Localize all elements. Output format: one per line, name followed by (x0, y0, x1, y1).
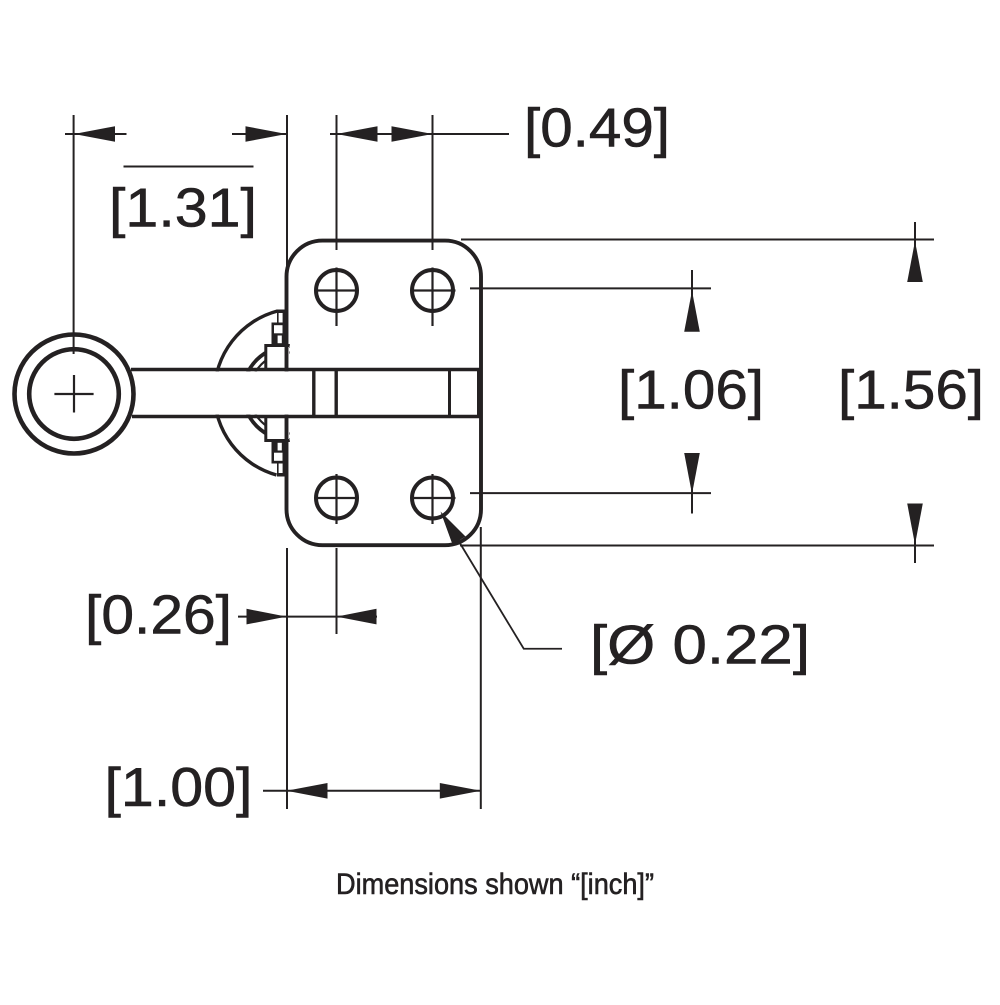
bar joint line 2 (335, 371, 338, 415)
clamp bar bottom edge (132, 415, 479, 419)
serration upper (272, 310, 287, 347)
leader arrow 0.22 (441, 512, 466, 545)
bar end cap (477, 368, 481, 418)
arrowheads (74, 126, 923, 798)
hole top-left (316, 270, 357, 311)
arrow 1.31 right (246, 126, 287, 142)
dim 1.06 top stub (691, 270, 693, 330)
bar joint line 1 (312, 371, 315, 415)
clamp bar body (white fill over plate edge and arcs) (133, 371, 477, 414)
dim 1.06 bottom stub (691, 456, 693, 514)
dim 1.56 bottom stub (914, 504, 916, 563)
overline above 1.31 (124, 166, 254, 168)
svg-text:[1.56]: [1.56] (838, 359, 984, 420)
arrow 0.26 right (337, 609, 377, 625)
dim 0.26 (238, 616, 377, 618)
svg-text:[1.06]: [1.06] (618, 359, 764, 420)
ext line hole-left-top (0.49) (336, 115, 338, 250)
arrow 1.00 right (440, 783, 481, 799)
inner washer arc inner (250, 353, 291, 434)
ext line plate-left-bottom (286, 548, 288, 809)
dim 1.56 top stub (914, 222, 916, 281)
extension + dimension lines (65, 115, 934, 809)
svg-text:[0.49]: [0.49] (524, 97, 670, 158)
svg-text:Dimensions shown “[inch]”: Dimensions shown “[inch]” (336, 868, 654, 901)
clamp bar top edge (131, 368, 479, 372)
ext line plate-right-bottom (480, 527, 482, 809)
leader 0.22 (452, 530, 562, 649)
arrow 0.49 left (337, 126, 378, 142)
arrow 1.56 down (907, 504, 923, 545)
roller outer circle (15, 335, 134, 454)
hole top-right (412, 270, 453, 311)
ext line 1.06 top (470, 287, 711, 289)
ext line hole-right-top (0.49) (432, 115, 434, 250)
dim 1.31 stubs (65, 133, 287, 135)
arrow 1.06 up (684, 291, 700, 332)
boss lower (266, 417, 290, 441)
hole bottom-left (316, 478, 357, 519)
dim 1.00 (263, 790, 481, 792)
ext line left (1.31) (73, 115, 75, 354)
ext line hole-left-bottom (336, 548, 338, 634)
arrow 1.00 left (287, 783, 328, 799)
boss upper (266, 346, 290, 370)
hole bottom-right (412, 478, 453, 519)
ext line plate-left-top (1.31) (286, 115, 288, 277)
bar joint line 3 (448, 371, 451, 415)
inner washer arc outer (243, 346, 290, 440)
roller inner circle (29, 349, 119, 439)
hole crosshairs (318, 268, 456, 525)
svg-text:[Ø 0.22]: [Ø 0.22] (590, 614, 810, 675)
svg-text:[0.26]: [0.26] (85, 585, 232, 646)
arrow 1.06 down (684, 453, 700, 494)
dim 0.49 line and leader to text (330, 133, 509, 135)
svg-text:[1.00]: [1.00] (105, 757, 253, 818)
ext line 1.56 bottom (460, 545, 934, 547)
mounting plate (287, 241, 482, 546)
roller crosshair (54, 375, 93, 413)
ext line 1.56 top (461, 239, 934, 241)
arrow 0.26 left (247, 609, 287, 625)
arrow 1.31 left (74, 126, 115, 142)
clamp washer big arc (214, 311, 277, 475)
serration lower (272, 440, 287, 477)
arrow 1.56 up (907, 241, 923, 282)
svg-text:[1.31]: [1.31] (109, 177, 257, 238)
ext line 1.06 bottom (470, 492, 711, 494)
arrow 0.49 right (392, 126, 433, 142)
